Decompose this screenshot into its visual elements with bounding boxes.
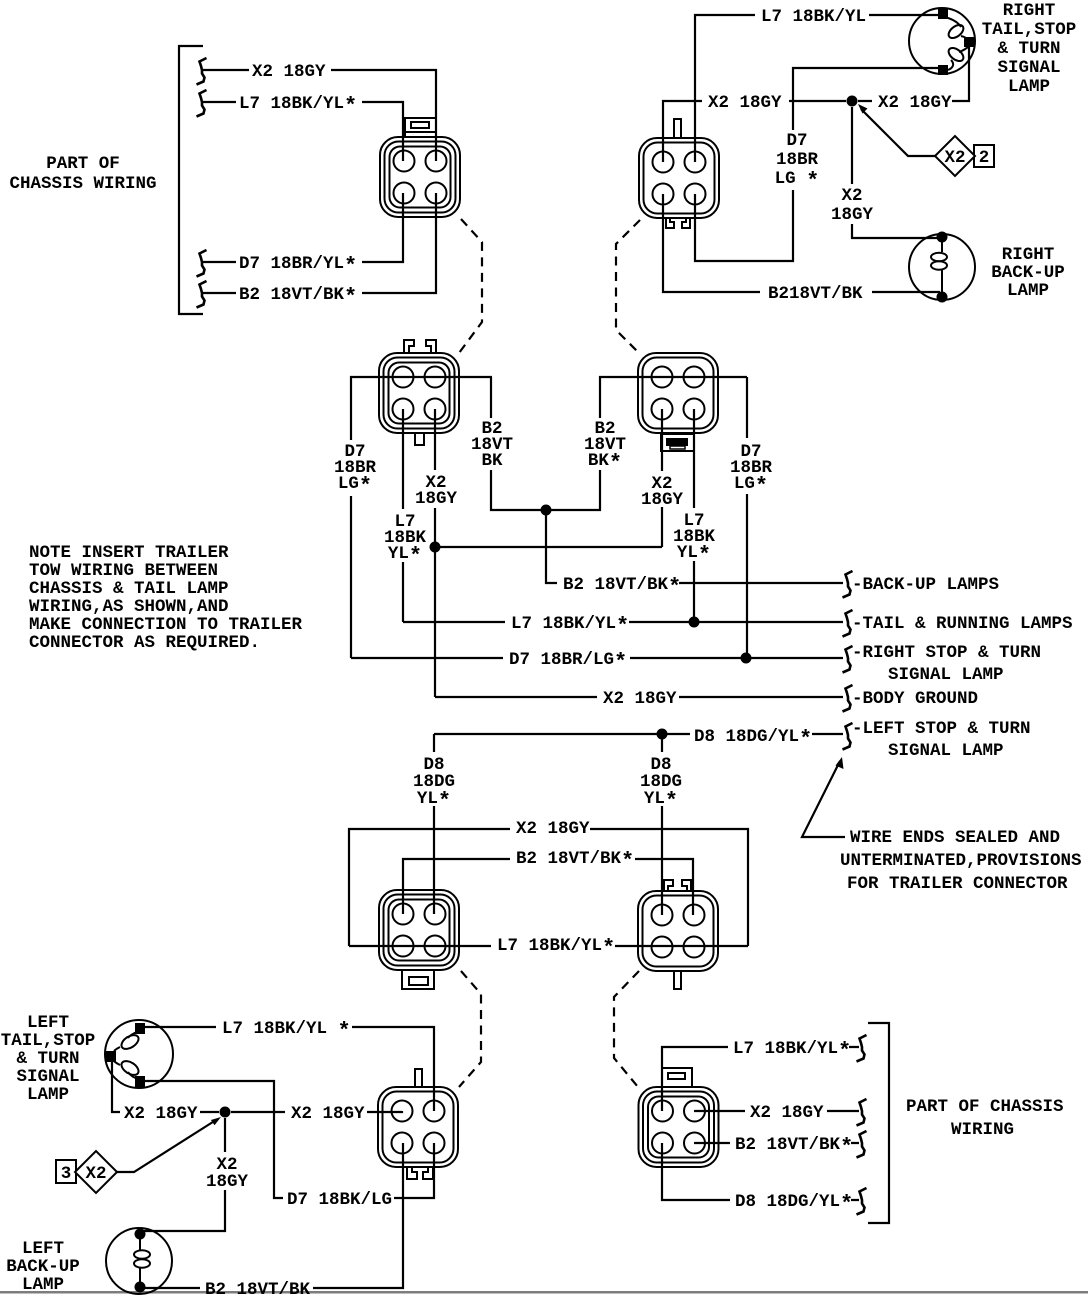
svg-text:3: 3 bbox=[61, 1164, 72, 1184]
bracket right (part of chassis wiring) bbox=[868, 1023, 889, 1223]
svg-text:UNTERMINATED,PROVISIONS: UNTERMINATED,PROVISIONS bbox=[840, 851, 1082, 871]
diamond X2 symbol (bottom) bbox=[75, 1151, 117, 1193]
wire B2 18VT BK (C3 pin down to junction) bbox=[491, 377, 543, 510]
svg-text:X2 18GY: X2 18GY bbox=[291, 1104, 365, 1124]
wire X2 18GY (trailer loop C5 to C6) bbox=[349, 829, 748, 946]
svg-text:X2 18GY: X2 18GY bbox=[708, 93, 782, 113]
connector C6 bottom prong bbox=[674, 971, 681, 989]
svg-text:CHASSIS & TAIL LAMP: CHASSIS & TAIL LAMP bbox=[29, 579, 229, 599]
connector C5 (trailer row left) bbox=[379, 890, 459, 970]
diamond X2 symbol bbox=[935, 136, 975, 176]
svg-text:L7 18BK/YL*: L7 18BK/YL* bbox=[497, 936, 615, 961]
connector C2 bottom hooks bbox=[666, 218, 690, 228]
svg-text:PART OF: PART OF bbox=[46, 154, 120, 174]
svg-text:LG*: LG* bbox=[338, 474, 372, 499]
connector C2 (body harness connector, top-center) bbox=[639, 138, 719, 218]
connector C8 (bottom-right) bbox=[639, 1087, 719, 1167]
connector count box 2 bbox=[974, 145, 994, 167]
svg-text:B218VT/BK: B218VT/BK bbox=[768, 284, 863, 304]
wire X2 18GY (C3 pin down, crosslink to C4) bbox=[435, 409, 662, 697]
wire L7 18BK/YL* (C8 to chassis stub) bbox=[662, 1047, 859, 1111]
svg-text:D7: D7 bbox=[786, 131, 807, 151]
svg-text:SIGNAL LAMP: SIGNAL LAMP bbox=[888, 665, 1004, 685]
wire X2 18GY (left lamp to junction) bbox=[112, 1056, 219, 1112]
svg-text:18GY: 18GY bbox=[206, 1172, 249, 1192]
svg-text:D8 18DG/YL*: D8 18DG/YL* bbox=[735, 1192, 853, 1217]
bracket left (part of chassis wiring) bbox=[179, 46, 203, 314]
wire X2 18GY (junction to C7) bbox=[231, 1111, 402, 1112]
junction node D7 bus bbox=[741, 653, 752, 664]
dashed mate link C2 to C4 bbox=[616, 220, 640, 353]
wire L7 18BK/YL* (chassis stub to C1 pin 1) bbox=[203, 102, 403, 161]
svg-text:-RIGHT STOP & TURN: -RIGHT STOP & TURN bbox=[852, 643, 1041, 663]
connector count box 3 bbox=[56, 1160, 76, 1183]
svg-text:LAMP: LAMP bbox=[1008, 77, 1050, 97]
svg-text:TOW WIRING BETWEEN: TOW WIRING BETWEEN bbox=[29, 561, 218, 581]
callout arrow to X2 junction bbox=[861, 109, 935, 156]
connector C3 (tail lamp side, middle-left) bbox=[379, 353, 459, 433]
svg-text:LG *: LG * bbox=[775, 169, 820, 194]
wire B2 18VT/BK (left back-up lamp to C7) bbox=[145, 1143, 403, 1288]
svg-text:X2 18GY: X2 18GY bbox=[603, 689, 677, 709]
svg-text:2: 2 bbox=[979, 148, 990, 168]
connector C6 top hooks bbox=[664, 880, 691, 891]
svg-text:BK: BK bbox=[481, 451, 503, 471]
wire B2 18VT/BK* (C8 to chassis stub) bbox=[694, 1142, 859, 1144]
bottom rule bbox=[0, 1291, 1088, 1294]
svg-text:D7 18BR/LG*: D7 18BR/LG* bbox=[509, 650, 627, 675]
svg-text:TAIL,STOP: TAIL,STOP bbox=[982, 20, 1077, 40]
wire B2 18VT/BK* (trailer C5 to C6) bbox=[403, 859, 693, 915]
svg-text:BACK-UP: BACK-UP bbox=[991, 263, 1065, 283]
svg-text:B2 18VT/BK: B2 18VT/BK bbox=[205, 1280, 311, 1296]
break symbol on X2 wire bbox=[197, 58, 207, 85]
lamp RIGHT TAIL STOP TURN bbox=[909, 8, 975, 75]
svg-text:X2 18GY: X2 18GY bbox=[124, 1104, 198, 1124]
svg-text:BACK-UP: BACK-UP bbox=[6, 1257, 80, 1277]
svg-text:FOR TRAILER CONNECTOR: FOR TRAILER CONNECTOR bbox=[847, 874, 1068, 894]
lamp RIGHT BACK-UP bbox=[909, 232, 975, 303]
dashed mate link C1 to C3 bbox=[459, 219, 482, 353]
wire X2 18GY (junction to right tail lamp ground) bbox=[858, 42, 969, 101]
svg-text:PART OF CHASSIS: PART OF CHASSIS bbox=[906, 1097, 1064, 1117]
svg-text:NOTE INSERT TRAILER: NOTE INSERT TRAILER bbox=[29, 543, 229, 563]
break symbol on D7 wire bbox=[197, 250, 207, 277]
svg-text:-TAIL & RUNNING LAMPS: -TAIL & RUNNING LAMPS bbox=[852, 614, 1073, 634]
break symbol L7 bus bbox=[843, 610, 853, 637]
svg-text:MAKE CONNECTION TO TRAILER: MAKE CONNECTION TO TRAILER bbox=[29, 615, 303, 635]
svg-text:L7 18BK/YL: L7 18BK/YL bbox=[761, 7, 866, 27]
svg-text:D7 18BK/LG: D7 18BK/LG bbox=[287, 1190, 392, 1210]
svg-text:X2 18GY: X2 18GY bbox=[252, 62, 326, 82]
svg-text:LAMP: LAMP bbox=[27, 1085, 69, 1105]
svg-text:X2: X2 bbox=[841, 186, 862, 206]
lamp LEFT TAIL STOP TURN bbox=[105, 1020, 173, 1088]
wire bus B2 18VT/BK* to trailer bbox=[546, 513, 843, 583]
connector C5 bottom lock tab bbox=[402, 970, 434, 989]
svg-text:18GY: 18GY bbox=[831, 205, 874, 225]
break symbol X2 bus bbox=[843, 685, 853, 712]
svg-text:SIGNAL: SIGNAL bbox=[997, 58, 1060, 78]
svg-text:LAMP: LAMP bbox=[1007, 281, 1049, 301]
svg-text:X2 18GY: X2 18GY bbox=[878, 93, 952, 113]
wire B2 18VT/BK (C2 pin 3 to right back-up lamp) bbox=[663, 194, 940, 292]
junction node X2 (bottom left) bbox=[220, 1107, 231, 1118]
connector C2 top prong tab bbox=[674, 119, 681, 138]
lamp LEFT BACK-UP bbox=[106, 1228, 172, 1294]
connector C7 bottom hooks bbox=[407, 1167, 433, 1179]
svg-text:L7 18BK/YL*: L7 18BK/YL* bbox=[733, 1039, 851, 1064]
wire D7 18BR/YL* (chassis stub to C1 pin 3) bbox=[203, 193, 403, 262]
wire bus L7 18BK/YL* to trailer bbox=[403, 621, 843, 623]
connector C1 top lock tab bbox=[405, 118, 436, 138]
junction node L7 bus bbox=[689, 617, 700, 628]
connector C3 top hooks bbox=[404, 340, 436, 353]
svg-text:D8 18DG/YL*: D8 18DG/YL* bbox=[694, 727, 812, 752]
svg-text:WIRING,AS SHOWN,AND: WIRING,AS SHOWN,AND bbox=[29, 597, 229, 617]
svg-text:X2 18GY: X2 18GY bbox=[750, 1103, 824, 1123]
svg-text:18GY: 18GY bbox=[641, 490, 684, 510]
svg-text:YL*: YL* bbox=[388, 544, 422, 569]
svg-text:-BACK-UP LAMPS: -BACK-UP LAMPS bbox=[852, 575, 999, 595]
wire L7 18BK/YL (C2 pin 2 to right tail lamp) bbox=[695, 15, 941, 162]
connector C6 (trailer row right) bbox=[638, 891, 718, 971]
wire X2 18GY (junction down to left back-up lamp) bbox=[140, 1118, 225, 1231]
dashed mate link C6 to C8 bbox=[614, 971, 639, 1087]
svg-text:LAMP: LAMP bbox=[22, 1275, 64, 1295]
connector C7 (bottom-center) bbox=[378, 1087, 458, 1167]
break symbol B2 bbox=[857, 1131, 867, 1158]
break symbol L7 bbox=[857, 1035, 867, 1062]
svg-text:X2 18GY: X2 18GY bbox=[516, 819, 590, 839]
wire bus X2 18GY to trailer bbox=[435, 696, 843, 698]
connector C3 bottom tab bbox=[415, 433, 424, 445]
svg-text:L7 18BK/YL *: L7 18BK/YL * bbox=[222, 1019, 351, 1044]
svg-text:WIRE ENDS SEALED AND: WIRE ENDS SEALED AND bbox=[850, 828, 1060, 848]
wire D7 18BR/LG* (C4 pin down to D7 bus) bbox=[746, 377, 748, 658]
wire D8 18DG/YL* (bus down to C6 pin) bbox=[661, 734, 663, 915]
wire B2 18VT BK* (junction to C4 pin) bbox=[549, 377, 747, 510]
svg-text:L7 18BK/YL*: L7 18BK/YL* bbox=[239, 94, 357, 119]
break symbol X2 bbox=[857, 1099, 867, 1126]
svg-text:& TURN: & TURN bbox=[16, 1049, 79, 1069]
svg-text:LEFT: LEFT bbox=[27, 1013, 69, 1033]
wire D8 18DG/YL* (bus down to C5 pin) bbox=[433, 734, 435, 914]
connector C1 (tail lamp connector, top-left) bbox=[380, 137, 460, 217]
callout arrow (wire ends sealed) bbox=[802, 761, 845, 837]
wire L7 18BK/YL* (C3 pin down to L7 bus) bbox=[402, 409, 404, 622]
svg-text:L7 18BK/YL*: L7 18BK/YL* bbox=[511, 614, 629, 639]
svg-text:SIGNAL LAMP: SIGNAL LAMP bbox=[888, 741, 1004, 761]
connector C4 bottom lock tab bbox=[661, 434, 694, 451]
svg-text:RIGHT: RIGHT bbox=[1002, 245, 1055, 265]
svg-text:X2: X2 bbox=[944, 148, 965, 168]
svg-text:WIRING: WIRING bbox=[951, 1120, 1014, 1140]
wire D7 18BK/LG (left lamp to C7) bbox=[140, 1081, 434, 1198]
break symbol D8 bbox=[857, 1188, 867, 1215]
callout arrow to X2 junction (bottom) bbox=[117, 1120, 216, 1172]
break symbol D7 bus bbox=[843, 646, 853, 673]
svg-text:SIGNAL: SIGNAL bbox=[16, 1067, 79, 1087]
junction node X2 crosslink bbox=[430, 542, 441, 553]
wire bus D7 18BR/LG* to trailer bbox=[351, 657, 843, 659]
break symbol on B2 wire bbox=[197, 281, 207, 308]
svg-text:-LEFT STOP & TURN: -LEFT STOP & TURN bbox=[852, 719, 1031, 739]
wire B2 18VT/BK* (chassis stub to C1 pin 4) bbox=[203, 193, 436, 293]
wire X2 18GY (junction down to right back-up lamp) bbox=[852, 107, 941, 238]
wire D8 18DG/YL* (C8 to chassis stub) bbox=[662, 1143, 859, 1200]
svg-text:B2 18VT/BK*: B2 18VT/BK* bbox=[516, 849, 634, 874]
svg-text:CHASSIS WIRING: CHASSIS WIRING bbox=[9, 174, 156, 194]
svg-text:LEFT: LEFT bbox=[22, 1239, 64, 1259]
svg-text:& TURN: & TURN bbox=[997, 39, 1060, 59]
svg-text:B2 18VT/BK*: B2 18VT/BK* bbox=[563, 575, 681, 600]
connector C8 top lock tab bbox=[662, 1068, 692, 1087]
svg-text:TAIL,STOP: TAIL,STOP bbox=[1, 1031, 96, 1051]
svg-text:CONNECTOR AS REQUIRED.: CONNECTOR AS REQUIRED. bbox=[29, 633, 260, 653]
wire bus D8 18DG/YL* to trailer bbox=[434, 733, 843, 735]
junction node D8 bus bbox=[657, 729, 668, 740]
junction node B2 bbox=[541, 505, 552, 516]
break symbol on L7 wire bbox=[197, 90, 207, 117]
wire X2 18GY (C2 pin 1 to junction) bbox=[663, 101, 846, 162]
svg-text:18GY: 18GY bbox=[415, 489, 458, 509]
svg-text:B2 18VT/BK*: B2 18VT/BK* bbox=[239, 285, 357, 310]
connector C4 (body side, middle-right) bbox=[638, 353, 718, 433]
wire D7 18BR/LG* (C3 pin to D7 bus) bbox=[351, 377, 492, 658]
svg-text:X2: X2 bbox=[85, 1164, 106, 1184]
wire X2 18GY (chassis stub to connector C1 pin 2) bbox=[203, 70, 436, 161]
wire D7 18BR/LG* (C2 pin 4 to right tail lamp stop/turn) bbox=[695, 68, 941, 261]
dashed mate link C5 to C7 bbox=[459, 971, 481, 1087]
wire X2 18GY (C8 to chassis stub) bbox=[694, 1110, 859, 1112]
break symbol D8 bus bbox=[843, 723, 853, 750]
wire L7 18BK/YL* (left lamp to C7) bbox=[140, 1027, 434, 1111]
svg-text:18BR: 18BR bbox=[776, 150, 819, 170]
junction node X2 (top right) bbox=[847, 96, 858, 107]
wire L7 18BK/YL* (C4 pin down to L7 bus) bbox=[693, 409, 695, 622]
svg-text:LG*: LG* bbox=[734, 474, 768, 499]
svg-text:D7 18BR/YL*: D7 18BR/YL* bbox=[239, 254, 357, 279]
connector C7 top prong bbox=[415, 1069, 422, 1087]
svg-text:BK*: BK* bbox=[588, 451, 622, 476]
svg-text:B2 18VT/BK*: B2 18VT/BK* bbox=[735, 1135, 853, 1160]
svg-text:-BODY GROUND: -BODY GROUND bbox=[852, 689, 978, 709]
break symbol B2 bus bbox=[843, 571, 853, 598]
svg-text:RIGHT: RIGHT bbox=[1003, 1, 1056, 21]
